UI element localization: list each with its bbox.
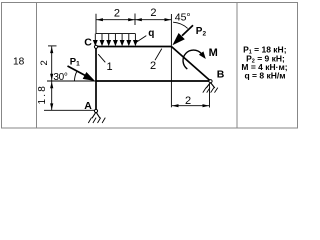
vertical dim arrow top (50, 47, 53, 54)
node C hinge circle (94, 45, 97, 48)
top dim arrow mid-left (128, 18, 135, 21)
force P2 arrow (182, 25, 193, 36)
svg-text:2: 2 (185, 95, 191, 107)
svg-text:45°: 45° (175, 11, 191, 23)
top dimension mid tick (134, 14, 136, 26)
moment M arc (183, 50, 201, 69)
mid beam to B (96, 80, 211, 82)
support B legs (206, 83, 215, 89)
member 1 column A-C (95, 47, 97, 112)
table separator right (236, 3, 238, 129)
top dim arrow right (165, 18, 172, 21)
leader line for q (136, 36, 147, 43)
bottom dim arrow left (172, 104, 179, 107)
30 degree angle arc (75, 71, 78, 81)
svg-text:1.8: 1.8 (37, 84, 48, 105)
leader for member 1 (98, 54, 105, 62)
leader for member 2 (155, 49, 162, 61)
svg-text:2: 2 (150, 60, 156, 72)
svg-text:P1: P1 (70, 57, 80, 68)
svg-text:2: 2 (150, 7, 156, 19)
top dim arrow left (96, 18, 103, 21)
vertical dim arrow mid lower (50, 82, 53, 89)
force P1 arrow (68, 66, 86, 76)
extension line above C (95, 14, 97, 34)
node A hinge circle (94, 109, 97, 112)
support A hatching (88, 118, 105, 123)
inclined strut D-B (171, 47, 210, 82)
vertical dimension line (51, 46, 53, 110)
table separator left (36, 3, 38, 129)
svg-text:18: 18 (13, 57, 25, 68)
45 degree angle arc (173, 22, 188, 28)
moment M arrowhead (199, 51, 206, 59)
svg-text:P2: P2 (196, 26, 207, 38)
svg-text:q: q (148, 28, 154, 39)
member 2 top beam C-D (96, 46, 171, 48)
extension line through D (170, 14, 172, 107)
bottom dim arrow right (203, 104, 210, 107)
svg-text:30°: 30° (53, 72, 68, 83)
svg-text:C: C (84, 37, 92, 49)
svg-text:M: M (209, 47, 218, 59)
bottom dim right extension line (209, 84, 211, 108)
distributed load arrows (94, 34, 138, 45)
vertical dim arrow bottom (50, 103, 53, 110)
top dimension line (96, 19, 171, 21)
distributed load top line (96, 33, 135, 35)
30 degree reference line (47, 80, 96, 82)
svg-text:2: 2 (114, 8, 120, 20)
A level extension line (44, 109, 95, 111)
svg-text:1: 1 (106, 61, 112, 73)
svg-text:2: 2 (39, 60, 50, 65)
vertical dim top tick (48, 45, 57, 47)
support B hatching (203, 88, 218, 93)
support A legs (92, 112, 100, 118)
svg-text:q = 8 кН/м: q = 8 кН/м (244, 70, 285, 80)
svg-text:B: B (217, 69, 225, 81)
top dim arrow mid-right (135, 18, 142, 21)
table outer border (2, 3, 298, 129)
node B hinge circle (209, 80, 212, 83)
bottom dimension line (172, 105, 209, 107)
vertical dim arrow mid upper (50, 74, 53, 81)
